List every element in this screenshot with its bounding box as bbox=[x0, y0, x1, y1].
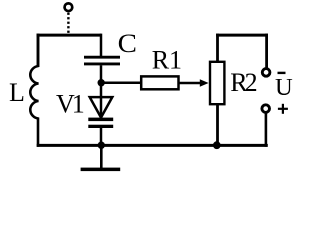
node junction dot bottom right bbox=[213, 141, 221, 149]
minus sign bbox=[278, 72, 286, 74]
resistor R1 bbox=[141, 76, 178, 89]
wire R1 to arrow bbox=[179, 82, 202, 85]
wire left vertical lower bbox=[37, 118, 40, 147]
node junction dot bottom left bbox=[98, 142, 105, 149]
wire R2 top lead bbox=[216, 34, 219, 62]
svg-text:R1: R1 bbox=[152, 45, 182, 74]
wire left vertical upper bbox=[37, 34, 40, 67]
terminal plus bbox=[262, 105, 270, 113]
svg-text:L: L bbox=[9, 78, 25, 107]
wire top-left horizontal bbox=[37, 34, 102, 37]
node junction dot top bbox=[98, 79, 105, 86]
potentiometer wiper arrow bbox=[200, 79, 209, 87]
varicap diode V1 bbox=[88, 83, 113, 146]
wire bottom horizontal bbox=[37, 144, 268, 147]
inductor L bbox=[30, 66, 38, 119]
svg-text:C: C bbox=[118, 29, 137, 58]
wire right vertical to minus terminal bbox=[265, 34, 268, 68]
svg-text:V1: V1 bbox=[56, 90, 84, 119]
terminal minus bbox=[262, 69, 270, 77]
potentiometer R2 bbox=[210, 62, 224, 104]
plus sign bbox=[278, 104, 288, 114]
ground bbox=[81, 145, 121, 171]
wire plus terminal to bottom bbox=[265, 114, 268, 147]
wire node to R1 bbox=[101, 82, 141, 85]
wire top-right horizontal bbox=[216, 34, 268, 37]
svg-text:U: U bbox=[275, 74, 293, 101]
wire R2 bottom lead bbox=[216, 104, 219, 145]
capacitor C bbox=[84, 34, 120, 83]
svg-text:R2: R2 bbox=[230, 68, 256, 97]
antenna bbox=[65, 3, 73, 34]
